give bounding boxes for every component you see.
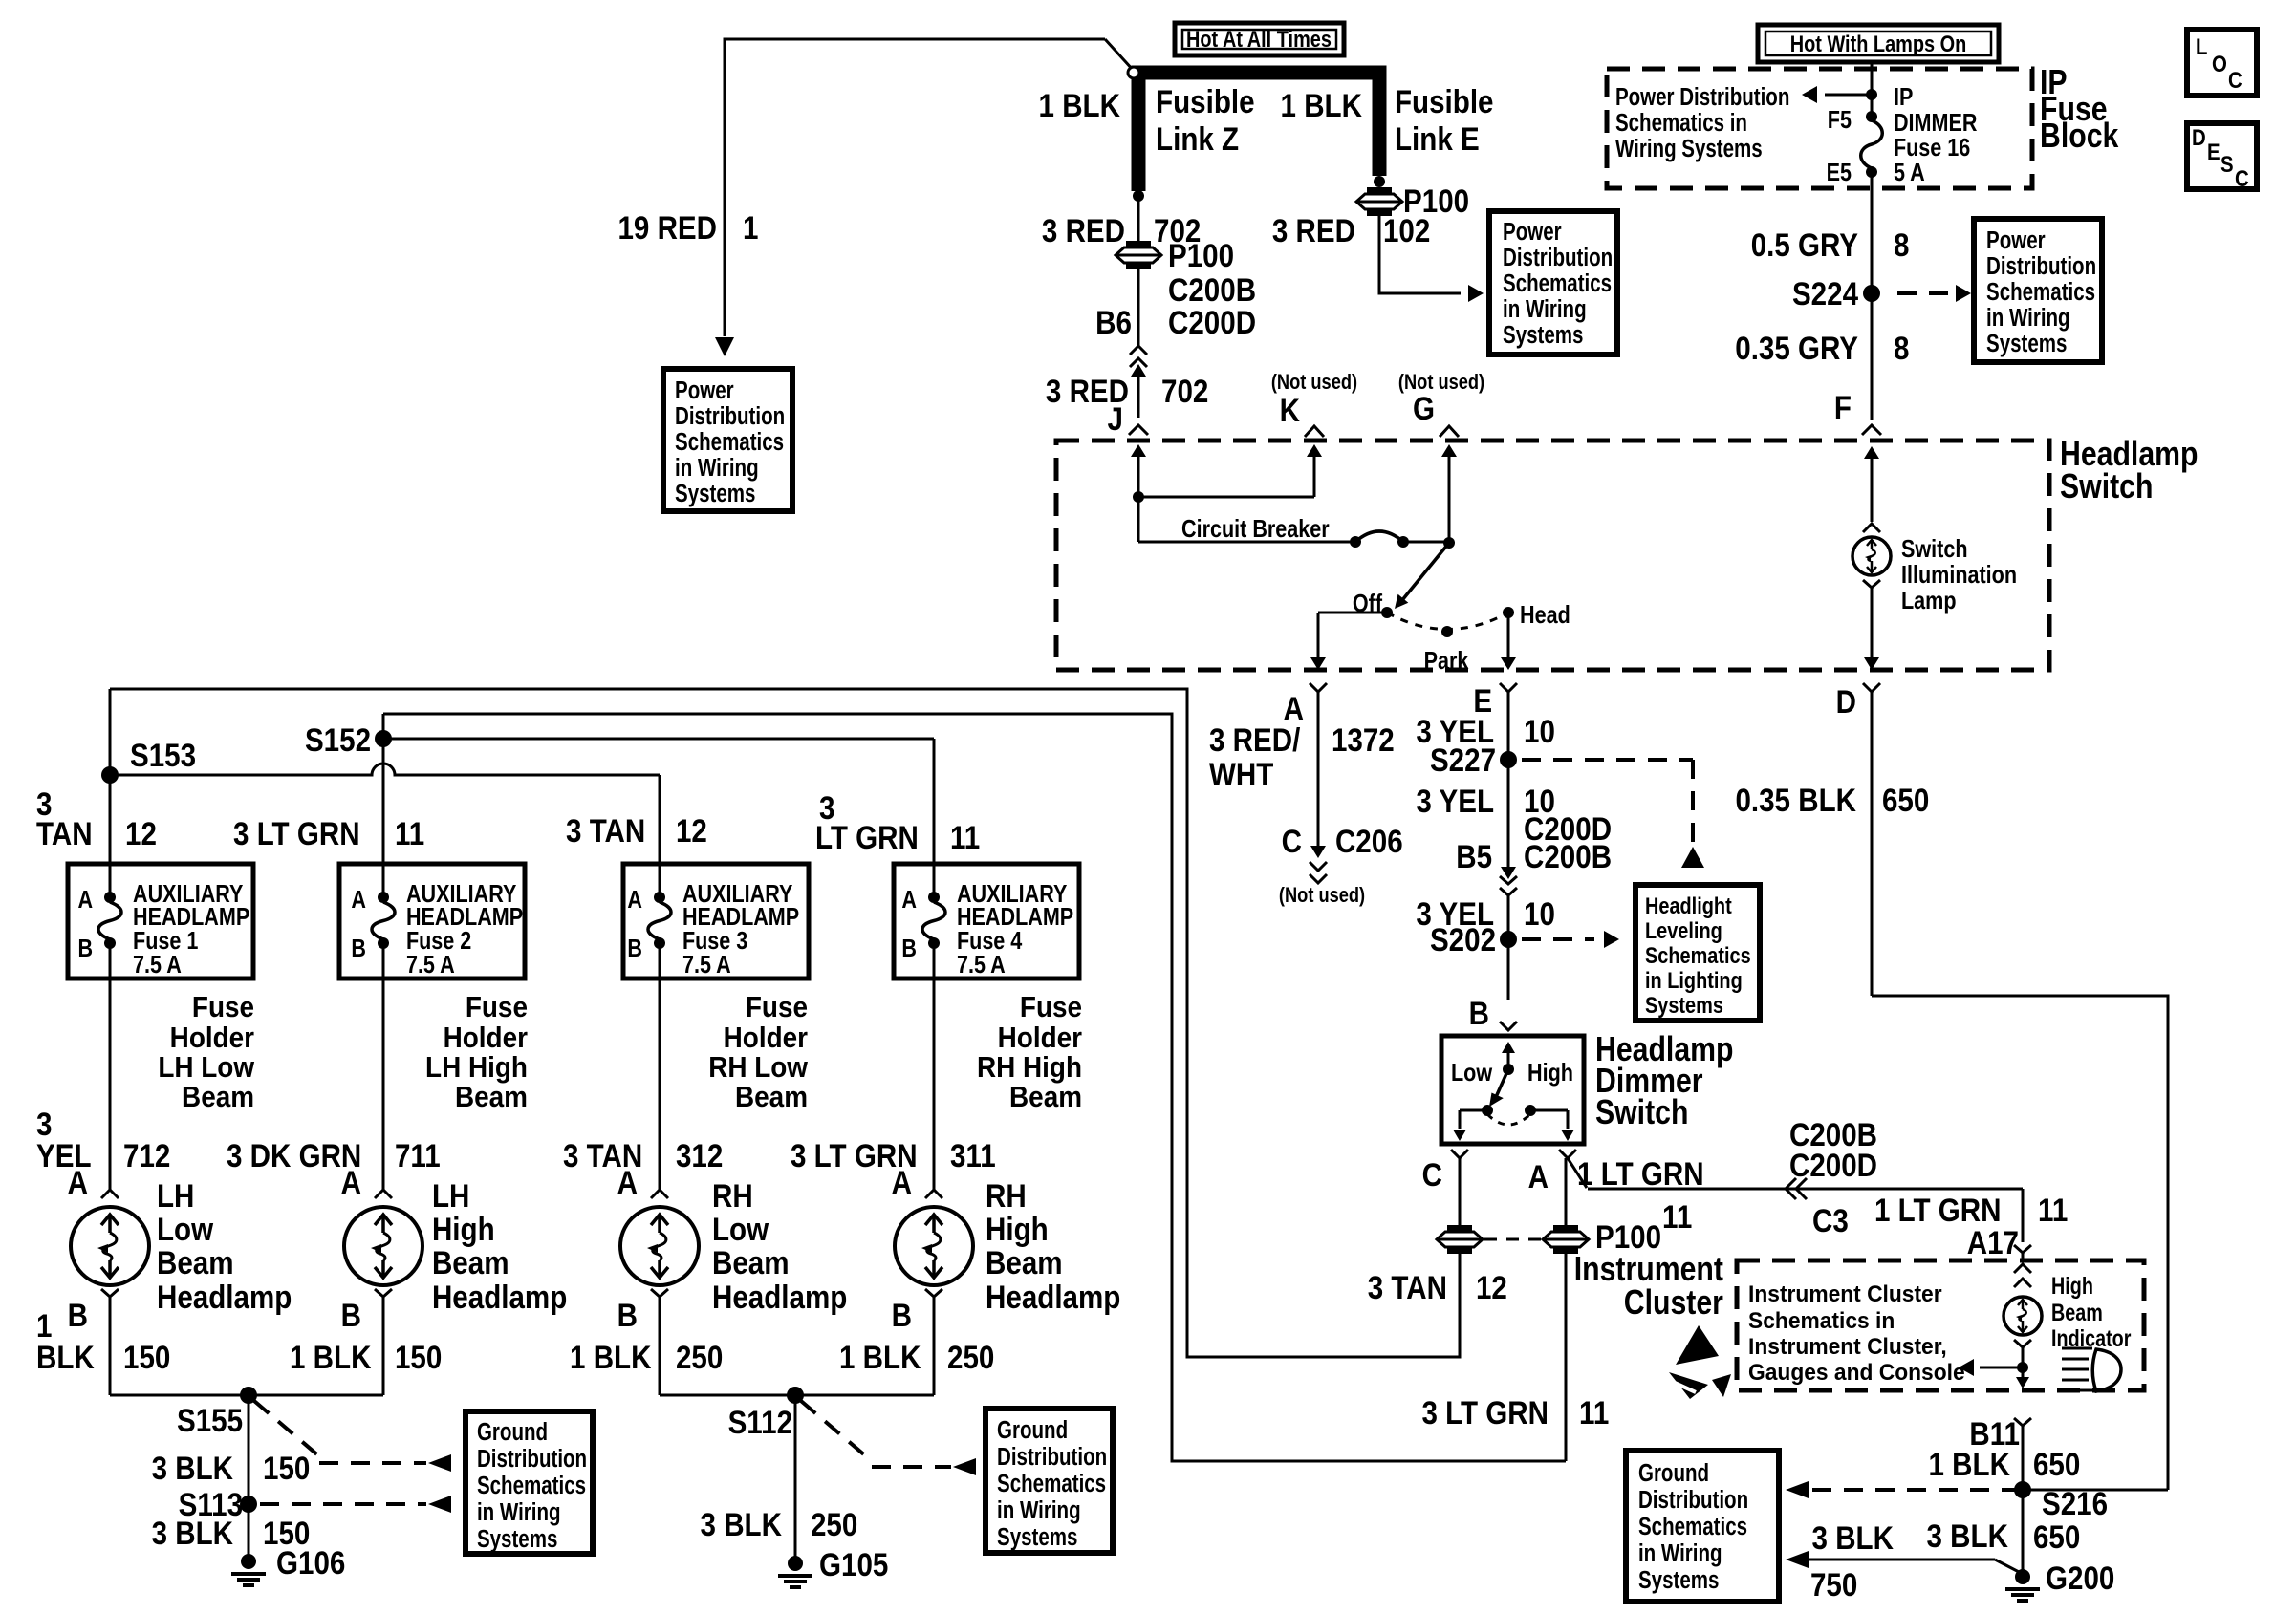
svg-text:Headlight: Headlight	[1645, 893, 1732, 918]
svg-text:Holder: Holder	[444, 1022, 529, 1055]
svg-text:Systems: Systems	[675, 480, 755, 507]
bus bar hot feed (thick)	[1138, 73, 1379, 191]
wire low contact to output C	[1460, 1109, 1487, 1112]
svg-text:LH: LH	[157, 1177, 194, 1214]
connector chevron above RH High Beam headlamp	[925, 1190, 942, 1198]
connector chevron above RH Low Beam headlamp	[651, 1190, 668, 1198]
wire 3 LT GRN 11 loop to high beam fuses	[383, 714, 1566, 1461]
ground G105	[788, 1556, 803, 1571]
svg-text:10: 10	[1524, 895, 1555, 932]
svg-text:B: B	[1469, 995, 1489, 1031]
svg-text:3 BLK: 3 BLK	[701, 1506, 782, 1542]
svg-text:8: 8	[1894, 330, 1909, 366]
svg-text:650: 650	[2033, 1518, 2080, 1555]
wire 0.5 GRY 8	[1871, 172, 1874, 420]
bulb Switch Illumination Lamp	[1852, 537, 1891, 575]
svg-text:A17: A17	[1967, 1224, 2019, 1260]
svg-text:E5: E5	[1827, 159, 1852, 186]
svg-text:3 RED/: 3 RED/	[1209, 721, 1300, 758]
svg-text:Beam: Beam	[735, 1081, 808, 1114]
svg-text:C: C	[1422, 1156, 1442, 1193]
svg-text:E: E	[2207, 139, 2220, 164]
svg-text:D: D	[1836, 683, 1856, 720]
svg-text:A: A	[627, 886, 642, 914]
svg-text:1: 1	[743, 209, 758, 246]
svg-text:Beam: Beam	[986, 1244, 1063, 1280]
splice S153	[101, 766, 119, 784]
fuse Fuse 1 element	[104, 892, 116, 903]
svg-text:in Lighting: in Lighting	[1645, 967, 1743, 993]
svg-text:3 LT GRN: 3 LT GRN	[233, 815, 360, 851]
svg-text:B5: B5	[1456, 838, 1492, 874]
contact Head dot	[1503, 607, 1514, 618]
svg-text:250: 250	[811, 1506, 857, 1542]
wire low beam feed drop to S153	[109, 689, 112, 775]
svg-text:C3: C3	[1812, 1202, 1849, 1238]
wire ground bus RH headlamps	[660, 1394, 934, 1397]
fuse 16 IP DIMMER 5A	[1866, 111, 1877, 122]
wire dimmer A output down through P100	[1565, 1158, 1568, 1226]
svg-text:0.5 GRY: 0.5 GRY	[1751, 226, 1858, 263]
svg-text:Distribution: Distribution	[1986, 252, 2096, 280]
svg-text:12: 12	[125, 815, 157, 851]
box DESC	[2187, 123, 2257, 189]
svg-text:(Not used): (Not used)	[1279, 885, 1365, 908]
splice S216	[2014, 1481, 2031, 1498]
svg-text:B6: B6	[1095, 304, 1132, 340]
svg-text:K: K	[1280, 392, 1300, 428]
wire 3 RED 702 segment	[1137, 196, 1140, 242]
svg-text:Power: Power	[1503, 218, 1562, 246]
svg-text:Systems: Systems	[1645, 992, 1723, 1018]
bulb LH High Beam Headlamp	[344, 1207, 422, 1285]
svg-text:B: B	[68, 1297, 88, 1333]
wire 650 loop right and down	[1872, 996, 2168, 1490]
svg-text:11: 11	[1662, 1198, 1692, 1235]
svg-text:Leveling: Leveling	[1645, 917, 1722, 943]
wire 1 LT GRN down to A17	[2022, 1189, 2025, 1242]
svg-text:S155: S155	[177, 1402, 243, 1438]
connector A chevron (dimmer)	[1559, 1150, 1576, 1158]
contact High dot	[1525, 1105, 1536, 1116]
dashed link between P100 halves	[1484, 1238, 1541, 1241]
svg-text:B: B	[892, 1297, 912, 1333]
junction dot below fusible link Z	[1133, 190, 1144, 202]
wire 3 YEL 10 to S202	[1507, 895, 1510, 1000]
svg-text:150: 150	[123, 1339, 170, 1375]
svg-text:Cluster: Cluster	[1624, 1284, 1723, 1323]
svg-text:Circuit Breaker: Circuit Breaker	[1181, 515, 1330, 543]
svg-text:B: B	[617, 1297, 638, 1333]
svg-text:Beam: Beam	[157, 1244, 234, 1280]
svg-text:Schematics: Schematics	[477, 1472, 586, 1499]
box Headlamp Dimmer Switch	[1441, 1036, 1584, 1144]
splice S112	[787, 1387, 804, 1404]
switch illumination lamp connector chevron	[1863, 524, 1880, 532]
dashed arrow S155 to ground distribution box	[254, 1401, 319, 1456]
svg-text:A: A	[68, 1164, 88, 1200]
svg-text:0.35 GRY: 0.35 GRY	[1735, 330, 1858, 366]
splice S202	[1500, 931, 1517, 948]
dashed arrow S112 to ground distribution box	[801, 1401, 866, 1456]
svg-text:11: 11	[950, 819, 980, 855]
svg-text:Fuse: Fuse	[746, 991, 808, 1024]
dashed box Instrument Cluster	[1737, 1260, 2144, 1390]
svg-text:Link Z: Link Z	[1156, 120, 1239, 157]
svg-text:250: 250	[676, 1339, 723, 1375]
wire 3 TAN 12 loop to low beam fuses	[110, 689, 1460, 1357]
svg-text:High: High	[1527, 1059, 1573, 1087]
splice S227	[1500, 751, 1517, 768]
wire segment to C200	[1137, 268, 1140, 346]
svg-text:Headlamp: Headlamp	[157, 1279, 292, 1315]
label J chevron and arrow inside switch	[1131, 444, 1146, 457]
wire fuse4 output 3 LT GRN 311	[933, 943, 936, 1190]
svg-text:750: 750	[1810, 1566, 1857, 1603]
svg-text:19 RED: 19 RED	[617, 209, 717, 246]
svg-text:High: High	[2051, 1273, 2093, 1300]
switch lever arm with arrowhead	[1402, 543, 1449, 600]
svg-text:RH: RH	[712, 1177, 753, 1214]
wire fuse3 output 3 TAN 312	[659, 943, 661, 1190]
arrow up into pin B6	[1131, 364, 1146, 377]
svg-text:3 BLK: 3 BLK	[1927, 1517, 2008, 1554]
svg-text:D: D	[2192, 124, 2206, 150]
wire RH High beam ground lead	[933, 1297, 936, 1395]
svg-text:Head: Head	[1520, 601, 1570, 629]
svg-text:S112: S112	[728, 1404, 792, 1440]
connector B11 chevron	[2014, 1418, 2031, 1426]
svg-text:S224: S224	[1792, 275, 1858, 312]
svg-text:1372: 1372	[1332, 721, 1395, 758]
svg-text:Lamp: Lamp	[1901, 587, 1957, 614]
svg-text:Fuse: Fuse	[192, 991, 254, 1024]
svg-text:Ground: Ground	[997, 1416, 1068, 1444]
svg-text:J: J	[1108, 400, 1123, 437]
svg-text:S152: S152	[305, 721, 371, 758]
wire S152 feed corner	[382, 714, 385, 739]
connector A17 chevron	[2014, 1245, 2031, 1253]
svg-text:Holder: Holder	[724, 1022, 809, 1055]
svg-text:Instrument Cluster,: Instrument Cluster,	[1748, 1333, 1947, 1359]
svg-text:Systems: Systems	[1986, 330, 2067, 357]
wire 3 BLK 750 with arrowhead	[1786, 1551, 1809, 1568]
arrow down to pin A	[1310, 657, 1326, 670]
arrow up to pin K	[1307, 444, 1322, 457]
svg-text:Switch: Switch	[2060, 468, 2153, 506]
junction dot below fusible link E	[1374, 176, 1385, 187]
svg-text:Schematics in: Schematics in	[1615, 109, 1747, 137]
connector C3 chevrons on wire	[1786, 1178, 1796, 1199]
svg-text:Low: Low	[1451, 1059, 1493, 1087]
connector chevron above LH Low Beam headlamp	[101, 1190, 119, 1198]
svg-text:B: B	[341, 1297, 361, 1333]
dashed arrow S202 to headlight leveling box	[1522, 937, 1594, 941]
wire fuse2 drop	[382, 739, 385, 897]
svg-text:7.5 A: 7.5 A	[682, 951, 731, 979]
svg-text:DIMMER: DIMMER	[1894, 109, 1977, 137]
svg-text:3 RED: 3 RED	[1042, 212, 1125, 248]
svg-text:in Wiring: in Wiring	[1638, 1539, 1722, 1567]
svg-text:F5: F5	[1828, 106, 1852, 134]
svg-text:RH Low: RH Low	[708, 1051, 808, 1085]
svg-text:A: A	[617, 1164, 638, 1200]
svg-text:Systems: Systems	[1503, 321, 1583, 349]
wire 19 RED circuit 1 from battery feed	[725, 39, 1105, 336]
connector C200 pin B6 chevrons	[1130, 346, 1147, 355]
fuse holder box Fuse 4	[894, 864, 1079, 979]
svg-text:11: 11	[1579, 1394, 1609, 1431]
svg-text:1 BLK: 1 BLK	[1281, 87, 1362, 123]
svg-text:C200B: C200B	[1168, 271, 1256, 308]
svg-text:1 BLK: 1 BLK	[290, 1339, 371, 1375]
svg-text:312: 312	[676, 1137, 723, 1173]
svg-text:Distribution: Distribution	[477, 1445, 587, 1473]
svg-text:1 BLK: 1 BLK	[839, 1339, 921, 1375]
svg-text:Ground: Ground	[477, 1418, 548, 1446]
svg-text:711: 711	[395, 1137, 441, 1173]
dimmer arrow up	[1502, 1042, 1515, 1053]
connector chevron below LH High Beam headlamp	[375, 1289, 392, 1297]
arrow down to pin D	[1864, 657, 1879, 670]
svg-text:A: A	[77, 886, 93, 914]
svg-text:650: 650	[2033, 1446, 2080, 1482]
svg-text:A: A	[351, 886, 366, 914]
svg-text:Low: Low	[712, 1211, 769, 1247]
svg-text:B: B	[627, 935, 642, 962]
connector B chevron	[1500, 1022, 1517, 1030]
svg-text:Schematics: Schematics	[1986, 278, 2095, 306]
svg-text:150: 150	[263, 1450, 310, 1486]
box Power Distribution Schematics in Wiring Systems (center)	[1489, 211, 1617, 355]
svg-text:3 LT GRN: 3 LT GRN	[1421, 1394, 1549, 1431]
svg-text:B: B	[77, 935, 93, 962]
svg-text:C: C	[2235, 165, 2249, 191]
ground G106	[241, 1554, 256, 1569]
svg-text:LH Low: LH Low	[158, 1051, 254, 1085]
wire 1 BLK 650	[2022, 1426, 2025, 1490]
svg-text:Beam: Beam	[712, 1244, 790, 1280]
svg-text:Fuse: Fuse	[466, 991, 528, 1024]
dashed arc between dimmer contacts	[1487, 1114, 1530, 1125]
svg-text:Headlamp: Headlamp	[432, 1279, 567, 1315]
wire S153 distribution line with hop over S152 leg	[110, 764, 660, 775]
svg-text:Schematics: Schematics	[675, 428, 784, 456]
arrow down from pin F inside switch	[1864, 446, 1879, 459]
wire circuit breaker feed	[1138, 541, 1355, 544]
svg-text:(Not used): (Not used)	[1398, 372, 1484, 395]
connector P100 (link E leg)	[1356, 194, 1402, 209]
wire 3 RED 102 to power distribution reference	[1379, 214, 1461, 293]
svg-text:IP: IP	[1894, 83, 1913, 111]
svg-text:Low: Low	[157, 1211, 213, 1247]
svg-text:Fusible: Fusible	[1395, 83, 1494, 119]
junction dot for K branch	[1133, 491, 1144, 503]
svg-text:3 RED: 3 RED	[1272, 212, 1355, 248]
svg-text:(Not used): (Not used)	[1271, 372, 1357, 395]
svg-text:LT GRN: LT GRN	[815, 819, 919, 855]
contact Park dot	[1441, 626, 1453, 637]
wire Off to output A	[1318, 612, 1387, 614]
arrowhead into Power Distribution box (center)	[1468, 285, 1484, 302]
svg-text:S153: S153	[130, 737, 196, 773]
svg-text:Switch: Switch	[1595, 1094, 1688, 1132]
svg-text:Schematics in: Schematics in	[1748, 1307, 1895, 1333]
svg-text:1 LT GRN: 1 LT GRN	[1874, 1192, 2002, 1228]
svg-text:102: 102	[1383, 212, 1430, 248]
svg-text:3 TAN: 3 TAN	[566, 812, 645, 849]
connector chevron below LH Low Beam headlamp	[101, 1289, 119, 1297]
svg-text:Switch: Switch	[1901, 535, 1968, 563]
wire dimmer C output to P100	[1459, 1158, 1462, 1226]
svg-text:Systems: Systems	[477, 1525, 557, 1553]
svg-text:1 LT GRN: 1 LT GRN	[1577, 1155, 1704, 1192]
svg-text:G200: G200	[2046, 1560, 2114, 1596]
svg-text:G106: G106	[276, 1544, 345, 1581]
contact Off dot	[1381, 607, 1393, 618]
svg-text:3 BLK: 3 BLK	[1812, 1519, 1894, 1556]
wire fuse3 drop	[659, 775, 661, 897]
svg-text:Park: Park	[1424, 647, 1469, 675]
svg-text:O: O	[2212, 51, 2227, 76]
connector chevron above LH High Beam headlamp	[375, 1190, 392, 1198]
svg-text:B: B	[351, 935, 366, 962]
svg-text:Fuse 16: Fuse 16	[1894, 134, 1970, 161]
svg-text:C: C	[1282, 823, 1302, 859]
fuse Fuse 4 element	[928, 892, 940, 903]
svg-text:Link E: Link E	[1395, 120, 1480, 157]
svg-text:Power: Power	[675, 377, 734, 404]
svg-text:Distribution: Distribution	[997, 1443, 1107, 1471]
connection ring at fusible link Z top	[1128, 67, 1139, 78]
wire 3 RED/WHT 1372	[1317, 692, 1320, 847]
svg-text:Headlamp: Headlamp	[986, 1279, 1120, 1315]
svg-text:High: High	[432, 1211, 495, 1247]
svg-text:1 BLK: 1 BLK	[1929, 1446, 2010, 1482]
dimmer lever with arrowhead	[1496, 1069, 1508, 1097]
wire 3 BLK 650 to G200	[2022, 1490, 2025, 1571]
svg-text:Beam: Beam	[432, 1244, 509, 1280]
fuse holder box Fuse 2	[339, 864, 525, 979]
wire Head to output E	[1507, 613, 1510, 658]
svg-text:Distribution: Distribution	[1638, 1486, 1748, 1514]
svg-text:Block: Block	[2040, 118, 2119, 156]
svg-text:A: A	[901, 886, 917, 914]
dashed reference from S227	[1522, 758, 1693, 762]
connector below illumination lamp	[1863, 580, 1880, 588]
arrowhead up (S227 reference)	[1681, 847, 1704, 868]
svg-text:702: 702	[1161, 373, 1208, 409]
connector C206 chevrons	[1310, 862, 1327, 871]
dimmer pivot dot	[1503, 1064, 1514, 1075]
svg-text:Ground: Ground	[1638, 1459, 1709, 1487]
svg-text:RH: RH	[986, 1177, 1027, 1214]
svg-text:7.5 A: 7.5 A	[133, 951, 182, 979]
svg-text:7.5 A: 7.5 A	[406, 951, 455, 979]
bulb RH Low Beam Headlamp	[620, 1207, 699, 1285]
arrow to power distribution schematics (left)	[1825, 94, 1872, 97]
svg-text:Instrument Cluster: Instrument Cluster	[1748, 1280, 1942, 1306]
svg-text:Fusible: Fusible	[1156, 83, 1255, 119]
fuse holder box Fuse 1	[68, 864, 253, 979]
svg-text:Distribution: Distribution	[1503, 244, 1613, 271]
svg-text:150: 150	[395, 1339, 442, 1375]
connector G chevron	[1440, 426, 1459, 437]
wire from Hot With Lamps On into fuse block	[1871, 62, 1874, 117]
connector P100 (low beam leg)	[1437, 1232, 1483, 1247]
svg-text:G: G	[1413, 390, 1435, 426]
svg-text:Beam: Beam	[455, 1081, 528, 1114]
svg-text:Holder: Holder	[170, 1022, 255, 1055]
svg-text:11: 11	[395, 815, 424, 851]
connector D chevron	[1863, 683, 1880, 692]
wire ground bus LH headlamps	[110, 1394, 383, 1397]
splice S155	[240, 1387, 257, 1404]
svg-text:250: 250	[947, 1339, 994, 1375]
svg-text:S202: S202	[1430, 921, 1496, 958]
svg-text:Illumination: Illumination	[1901, 561, 2017, 589]
svg-text:Schematics: Schematics	[1503, 269, 1612, 297]
wire fuse4 drop	[933, 739, 936, 897]
splice S152	[375, 730, 392, 747]
wire from 650 loop to S216	[2023, 1489, 2168, 1492]
svg-text:C200D: C200D	[1168, 304, 1256, 340]
box Ground Distribution Schematics in Wiring Systems (left)	[466, 1411, 593, 1554]
dashed arrow S216 to ground distribution box	[1812, 1488, 2015, 1492]
svg-text:C: C	[2228, 67, 2242, 93]
box LOC	[2187, 30, 2257, 96]
arrow to Gauges and Console text	[1980, 1367, 2023, 1369]
svg-text:TAN: TAN	[36, 815, 93, 851]
box Power Distribution Schematics in Wiring Systems (left)	[663, 369, 792, 511]
svg-text:11: 11	[2038, 1192, 2068, 1228]
svg-text:Power Distribution: Power Distribution	[1615, 83, 1789, 111]
connector E chevron	[1500, 683, 1517, 692]
ESD sensitivity symbol	[1676, 1325, 1719, 1365]
bulb RH High Beam Headlamp	[895, 1207, 973, 1285]
svg-text:Holder: Holder	[998, 1022, 1083, 1055]
wire fuse1 output 3 YEL 712	[109, 943, 112, 1190]
svg-text:3 TAN: 3 TAN	[1368, 1269, 1447, 1305]
wire RH Low beam ground lead	[659, 1297, 661, 1395]
svg-text:Distribution: Distribution	[675, 402, 785, 430]
svg-text:G105: G105	[819, 1546, 888, 1582]
fuse holder box Fuse 3	[623, 864, 809, 979]
connector C200 pin B5 arrow and chevrons	[1501, 867, 1516, 879]
svg-text:712: 712	[123, 1137, 170, 1173]
connector K chevron	[1305, 426, 1324, 437]
contact Low dot	[1482, 1105, 1493, 1116]
wire LH High beam ground lead	[382, 1297, 385, 1395]
svg-text:WHT: WHT	[1209, 756, 1274, 792]
svg-text:3 BLK: 3 BLK	[152, 1515, 233, 1551]
connector chevron below RH High Beam headlamp	[925, 1289, 942, 1297]
wire fuse2 output 3 DK GRN 711	[382, 943, 385, 1190]
svg-text:Beam: Beam	[182, 1081, 254, 1114]
wire 1 LT GRN diagonal from dimmer output A	[1568, 1158, 1587, 1188]
svg-text:Power: Power	[1986, 226, 2046, 254]
wire fuse1 drop	[109, 775, 112, 897]
wire 3 YEL 10 to S227	[1507, 692, 1510, 868]
wire high contact to output A	[1530, 1109, 1568, 1112]
connector chevrons inside cluster (A17 pin)	[2014, 1264, 2031, 1273]
svg-text:in Wiring: in Wiring	[675, 454, 759, 482]
svg-text:C200B: C200B	[1524, 838, 1612, 874]
connector J chevron	[1129, 425, 1148, 435]
connector P100 (high beam leg)	[1543, 1232, 1589, 1247]
svg-text:12: 12	[676, 812, 707, 849]
svg-text:in Wiring: in Wiring	[1986, 304, 2070, 332]
